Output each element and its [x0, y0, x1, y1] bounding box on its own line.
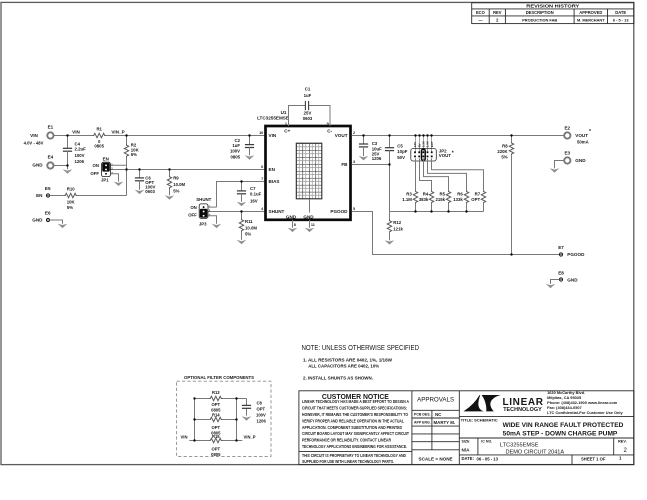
svg-text:OFF: OFF — [188, 213, 197, 218]
ground — [237, 240, 247, 244]
jumper JP2 — [411, 136, 454, 162]
svg-text:TITLE: SCHEMATIC: TITLE: SCHEMATIC — [461, 418, 498, 423]
ground — [165, 195, 175, 199]
svg-text:OPT: OPT — [211, 425, 220, 430]
svg-text:1206: 1206 — [372, 156, 382, 161]
svg-text:ON: ON — [93, 163, 99, 168]
svg-text:R14: R14 — [212, 413, 220, 418]
svg-text:R12: R12 — [393, 220, 401, 225]
wire VOUT rail — [352, 135, 564, 137]
title block frame — [299, 391, 634, 465]
U1 exposed pad hatch — [296, 143, 322, 212]
svg-text:R10: R10 — [67, 186, 75, 191]
svg-text:1uF: 1uF — [232, 143, 240, 148]
svg-text:1: 1 — [209, 204, 211, 208]
wire JP2 staircase — [416, 158, 484, 190]
svg-text:R5: R5 — [440, 191, 446, 196]
terminal E7 — [559, 253, 562, 256]
ground — [245, 155, 255, 159]
ground — [237, 202, 247, 206]
U1 GND pins to ground — [292, 220, 294, 228]
svg-text:E2: E2 — [564, 125, 570, 130]
svg-text:1: 1 — [285, 122, 287, 126]
svg-text:EN: EN — [103, 156, 109, 161]
svg-text:R4: R4 — [423, 191, 429, 196]
wire BIAS rail — [217, 182, 265, 208]
ground — [58, 224, 68, 228]
svg-text:REV: REV — [493, 10, 502, 15]
svg-text:6: 6 — [261, 165, 263, 169]
svg-text:E3: E3 — [564, 151, 570, 156]
svg-text:133k: 133k — [453, 197, 463, 202]
svg-text:THIS CIRCUIT IS PROPRIETARY TO: THIS CIRCUIT IS PROPRIETARY TO LINEAR TE… — [302, 453, 406, 458]
svg-text:PGOOD: PGOOD — [330, 209, 348, 214]
svg-text:100V: 100V — [75, 153, 85, 158]
wire — [54, 165, 67, 167]
svg-text:TECHNOLOGY: TECHNOLOGY — [503, 407, 542, 413]
wire ladder rail — [390, 211, 484, 213]
resistor R5 — [446, 190, 450, 203]
resistor R12 — [389, 212, 391, 220]
terminal E2 — [564, 132, 570, 138]
resistor R8 — [511, 136, 513, 142]
resistor R1 — [93, 133, 106, 137]
svg-text:1uF: 1uF — [304, 93, 312, 98]
svg-text:LTC3255EMSE: LTC3255EMSE — [500, 442, 539, 448]
wire — [50, 220, 63, 224]
svg-text:PGOOD: PGOOD — [567, 252, 585, 257]
svg-text:*: * — [452, 151, 454, 157]
svg-text:GND: GND — [303, 214, 314, 219]
svg-text:OPT: OPT — [257, 407, 266, 412]
svg-text:0805: 0805 — [211, 407, 221, 412]
svg-text:E6: E6 — [45, 211, 51, 216]
resistor R7 — [481, 190, 485, 203]
svg-text:EXT: EXT — [430, 141, 434, 147]
terminal E4 — [47, 162, 53, 168]
svg-text:SHUNT: SHUNT — [269, 209, 285, 214]
svg-text:SUPPLIED FOR USE WITH LINEAR T: SUPPLIED FOR USE WITH LINEAR TECHNOLOGY … — [302, 459, 394, 464]
svg-text:8: 8 — [294, 223, 296, 227]
svg-text:2: 2 — [353, 131, 355, 135]
svg-text:16V: 16V — [250, 199, 258, 204]
svg-text:C1: C1 — [305, 87, 311, 92]
svg-text:R3: R3 — [406, 191, 412, 196]
svg-text:HOWEVER, IT REMAINS THE CUSTOM: HOWEVER, IT REMAINS THE CUSTOMER'S RESPO… — [302, 412, 409, 417]
svg-text:GND: GND — [32, 163, 43, 168]
svg-text:0.1uF: 0.1uF — [250, 191, 262, 196]
ground — [305, 228, 315, 232]
svg-text:0603: 0603 — [303, 116, 313, 121]
ground — [135, 190, 145, 194]
svg-text:NC: NC — [435, 412, 442, 417]
svg-text:VIN: VIN — [72, 129, 80, 134]
ground — [114, 182, 124, 186]
wire EN rail — [110, 169, 264, 171]
svg-text:10.0M: 10.0M — [245, 225, 257, 230]
svg-text:R7: R7 — [475, 191, 481, 196]
svg-text:GND: GND — [32, 218, 43, 223]
terminal E5 — [46, 194, 49, 197]
svg-text:OPT: OPT — [211, 446, 220, 451]
ground — [63, 169, 73, 173]
svg-text:1206: 1206 — [257, 419, 267, 424]
svg-text:E8: E8 — [558, 270, 564, 275]
svg-text:VOUT: VOUT — [439, 153, 452, 158]
svg-text:100V: 100V — [256, 413, 266, 418]
terminal E6 — [46, 218, 49, 221]
svg-text:C-: C- — [327, 129, 332, 134]
svg-text:3: 3 — [353, 160, 355, 164]
resistor R11 — [241, 212, 243, 219]
jumper JP1 — [90, 156, 113, 182]
svg-text:6 - 5 - 13: 6 - 5 - 13 — [613, 18, 629, 23]
svg-text:R11: R11 — [245, 219, 253, 224]
svg-text:VIN: VIN — [181, 435, 188, 440]
wire EN riser — [126, 157, 128, 195]
svg-text:5: 5 — [353, 207, 355, 211]
svg-text:VIN_P: VIN_P — [111, 129, 124, 134]
svg-text:1. ALL RESISTORS ARE 0402, 1%,: 1. ALL RESISTORS ARE 0402, 1%, 1/16W — [303, 357, 393, 362]
svg-text:25V: 25V — [304, 111, 312, 116]
svg-text:5%: 5% — [131, 152, 137, 157]
svg-text:R13: R13 — [212, 390, 220, 395]
resistor R13 — [209, 396, 222, 400]
svg-text:C5: C5 — [397, 143, 403, 148]
resistor R2 — [126, 136, 128, 145]
svg-text:LINEAR TECHNOLOGY HAS MADE A B: LINEAR TECHNOLOGY HAS MADE A BEST EFFORT… — [302, 399, 409, 404]
capacitor C1 — [289, 106, 331, 127]
svg-text:10pF: 10pF — [397, 149, 407, 154]
wire VIN rail — [54, 135, 264, 137]
svg-text:7: 7 — [261, 177, 263, 181]
svg-text:R8: R8 — [502, 143, 508, 148]
svg-text:5%: 5% — [67, 205, 73, 210]
svg-text:APPROVALS: APPROVALS — [417, 397, 454, 404]
svg-text:FB: FB — [341, 162, 348, 167]
svg-text:DEMO CIRCUIT 2041A: DEMO CIRCUIT 2041A — [506, 449, 565, 455]
svg-text:ALL CAPACITORS ARE 0402, 10%: ALL CAPACITORS ARE 0402, 10% — [308, 364, 380, 369]
svg-text:PCB DES.: PCB DES. — [414, 413, 431, 417]
svg-text:SHEET 1 OF: SHEET 1 OF — [581, 456, 606, 461]
svg-text:1.1M: 1.1M — [402, 197, 412, 202]
svg-text:50mA: 50mA — [577, 140, 589, 145]
svg-text:10: 10 — [259, 131, 263, 135]
wire FB rail — [352, 164, 390, 166]
wire JP3 to ground — [208, 216, 216, 224]
JP2 voltage option labels — [413, 140, 434, 147]
svg-text:BIAS: BIAS — [269, 179, 280, 184]
svg-text:C+: C+ — [284, 129, 290, 134]
terminal E8 — [559, 278, 562, 281]
svg-text:C7: C7 — [250, 186, 256, 191]
jumper JP3 — [188, 197, 211, 226]
svg-text:10.0M: 10.0M — [173, 182, 185, 187]
svg-text:NOTE: UNLESS OTHERWISE SPECIFI: NOTE: UNLESS OTHERWISE SPECIFIED — [302, 343, 420, 352]
resistor R15 — [209, 438, 222, 442]
svg-text:1: 1 — [619, 456, 622, 461]
svg-text:2. INSTALL SHUNTS AS SHOWN.: 2. INSTALL SHUNTS AS SHOWN. — [303, 376, 373, 381]
svg-text:LTC Confidential-For Customer: LTC Confidential-For Customer Use Only — [547, 410, 623, 415]
resistor R4 — [429, 190, 433, 203]
svg-text:VOUT: VOUT — [575, 133, 588, 138]
junction dots left — [66, 134, 68, 136]
svg-text:SIZE: SIZE — [462, 440, 471, 444]
resistor R6 — [464, 190, 468, 203]
U1 pin numbers — [259, 122, 355, 227]
svg-text:2.2uF: 2.2uF — [75, 147, 87, 152]
svg-text:IC NO.: IC NO. — [481, 440, 492, 444]
ground — [212, 224, 222, 228]
svg-text:PERFORMANCE OR RELIABILITY. C: PERFORMANCE OR RELIABILITY. CONTACT LINE… — [302, 438, 391, 443]
wire SHUNT rail — [208, 211, 264, 213]
svg-text:ON: ON — [190, 205, 196, 210]
svg-text:LTC3255EMSE: LTC3255EMSE — [257, 116, 289, 121]
wire — [189, 399, 246, 441]
wire E8 to ground — [551, 280, 560, 284]
svg-text:OPTIONAL FILTER COMPONENTS: OPTIONAL FILTER COMPONENTS — [184, 375, 254, 380]
svg-text:DATE: DATE — [615, 10, 626, 15]
svg-text:0805: 0805 — [211, 452, 221, 457]
svg-text:R6: R6 — [457, 191, 463, 196]
svg-text:10K: 10K — [67, 199, 76, 204]
junction dots — [193, 397, 195, 399]
svg-text:CIRCUIT THAT MEETS CUSTOMER-SU: CIRCUIT THAT MEETS CUSTOMER-SUPPLIED SPE… — [302, 406, 407, 411]
svg-text:DATE:: DATE: — [462, 456, 474, 461]
svg-text:5%: 5% — [173, 188, 179, 193]
wire E3 to ground — [555, 161, 565, 169]
svg-text:VIN: VIN — [269, 133, 277, 138]
svg-text:5%: 5% — [245, 231, 251, 236]
svg-text:WIDE VIN RANGE FAULT PROTECTED: WIDE VIN RANGE FAULT PROTECTED — [503, 422, 624, 429]
svg-text:E5: E5 — [45, 186, 51, 191]
capacitor C6 — [139, 170, 141, 178]
svg-text:C8: C8 — [257, 401, 263, 406]
svg-text:GND: GND — [575, 158, 586, 163]
svg-text:JP3: JP3 — [199, 221, 207, 226]
Linear Technology logo — [464, 395, 485, 411]
svg-text:4: 4 — [261, 207, 264, 211]
svg-text:220K: 220K — [497, 149, 508, 154]
svg-text:OFF: OFF — [90, 171, 99, 176]
svg-text:EN: EN — [36, 193, 43, 198]
svg-text:SHUNT: SHUNT — [196, 197, 211, 202]
resistor R3 — [413, 190, 417, 203]
ground — [288, 228, 298, 232]
svg-text:EN: EN — [269, 167, 276, 172]
resistor R14 — [209, 417, 222, 421]
svg-text:50mA STEP - DOWN CHARGE PUMP: 50mA STEP - DOWN CHARGE PUMP — [503, 430, 618, 437]
terminal E1 — [47, 132, 53, 138]
wire JP3 stub — [208, 206, 216, 208]
svg-text:*: * — [589, 129, 591, 135]
ground — [242, 416, 252, 420]
svg-text:N/A: N/A — [462, 448, 471, 453]
svg-text:E1: E1 — [48, 125, 54, 130]
junction dots right — [362, 134, 364, 136]
svg-text:VIN: VIN — [30, 133, 38, 138]
svg-text:APPROVED: APPROVED — [579, 10, 602, 15]
svg-text:C3: C3 — [372, 141, 378, 146]
svg-text:R15: R15 — [212, 434, 220, 439]
svg-text:0805: 0805 — [230, 154, 240, 159]
svg-text:215k: 215k — [435, 197, 445, 202]
svg-text:R9: R9 — [173, 175, 179, 180]
svg-text:U1: U1 — [281, 110, 287, 115]
svg-text:2: 2 — [624, 448, 628, 454]
svg-text:9: 9 — [327, 122, 329, 126]
revision history table — [472, 3, 634, 24]
svg-text:11: 11 — [311, 223, 315, 227]
svg-text:E7: E7 — [558, 245, 564, 250]
svg-text:2: 2 — [496, 18, 499, 23]
op-amp U1 LTC3255EMSE body — [266, 126, 351, 220]
svg-text:REV.: REV. — [618, 439, 627, 444]
wire JP1 to ground — [110, 174, 118, 182]
svg-text:OPT: OPT — [211, 402, 220, 407]
ground — [385, 240, 395, 244]
svg-text:0805: 0805 — [94, 144, 104, 149]
svg-text:M. MERCHANT: M. MERCHANT — [577, 18, 605, 23]
svg-text:MARTY M.: MARTY M. — [434, 420, 456, 425]
svg-text:ECO: ECO — [476, 10, 486, 15]
capacitor C7 — [241, 182, 243, 191]
U1 pin names — [269, 129, 349, 220]
svg-text:PRODUCTION FAB: PRODUCTION FAB — [522, 18, 557, 23]
terminal E3 — [564, 157, 570, 163]
svg-text:OPT: OPT — [471, 197, 480, 202]
wire PGOOD — [352, 212, 560, 255]
svg-text:CIRCUIT BOARD LAYOUT MAY SIGNI: CIRCUIT BOARD LAYOUT MAY SIGNIFICANTLY A… — [302, 431, 409, 436]
svg-text:1: 1 — [111, 162, 113, 166]
capacitor C5 — [389, 136, 391, 148]
resistor R10 — [50, 195, 64, 197]
resistor R9 — [169, 170, 171, 176]
svg-text:—: — — [478, 18, 483, 23]
optional filter components box — [177, 381, 271, 456]
svg-text:E4: E4 — [48, 154, 54, 159]
ground — [550, 168, 560, 172]
svg-text:GND: GND — [567, 277, 578, 282]
svg-text:4.0V - 48V: 4.0V - 48V — [24, 141, 44, 146]
capacitor C8 — [242, 405, 251, 408]
svg-text:5%: 5% — [501, 155, 507, 160]
svg-text:VERIFY PROPER AND RELIABLE OPE: VERIFY PROPER AND RELIABLE OPERATION IN … — [302, 418, 404, 423]
svg-text:VIN_P: VIN_P — [244, 435, 256, 440]
capacitor C3 — [363, 136, 365, 144]
svg-text:JP1: JP1 — [101, 178, 109, 183]
ground — [359, 156, 369, 160]
ground — [546, 284, 556, 288]
svg-text:R1: R1 — [96, 127, 102, 132]
capacitor C2 — [249, 136, 251, 145]
svg-text:1206: 1206 — [75, 159, 85, 164]
svg-text:SCALE = NONE: SCALE = NONE — [419, 457, 453, 462]
svg-text:DESCRIPTION: DESCRIPTION — [526, 10, 554, 15]
svg-text:VOUT: VOUT — [335, 133, 348, 138]
capacitor C4 — [67, 136, 69, 149]
svg-text:121k: 121k — [393, 226, 403, 231]
svg-text:TECHNOLOGY APPLICATIONS ENGINE: TECHNOLOGY APPLICATIONS ENGINEERING FOR … — [302, 444, 407, 449]
svg-text:383k: 383k — [419, 197, 429, 202]
svg-text:REVISION HISTORY: REVISION HISTORY — [526, 4, 580, 10]
svg-text:100V: 100V — [230, 149, 240, 154]
svg-text:50V: 50V — [397, 155, 405, 160]
svg-text:06 - 05 - 13: 06 - 05 - 13 — [477, 456, 499, 461]
svg-text:APPLICATION. COMPONENT SUBSTI: APPLICATION. COMPONENT SUBSTITUTION AND … — [302, 425, 402, 430]
svg-text:0603: 0603 — [145, 189, 155, 194]
svg-text:GND: GND — [286, 214, 297, 219]
svg-text:APP ENG.: APP ENG. — [414, 421, 431, 425]
